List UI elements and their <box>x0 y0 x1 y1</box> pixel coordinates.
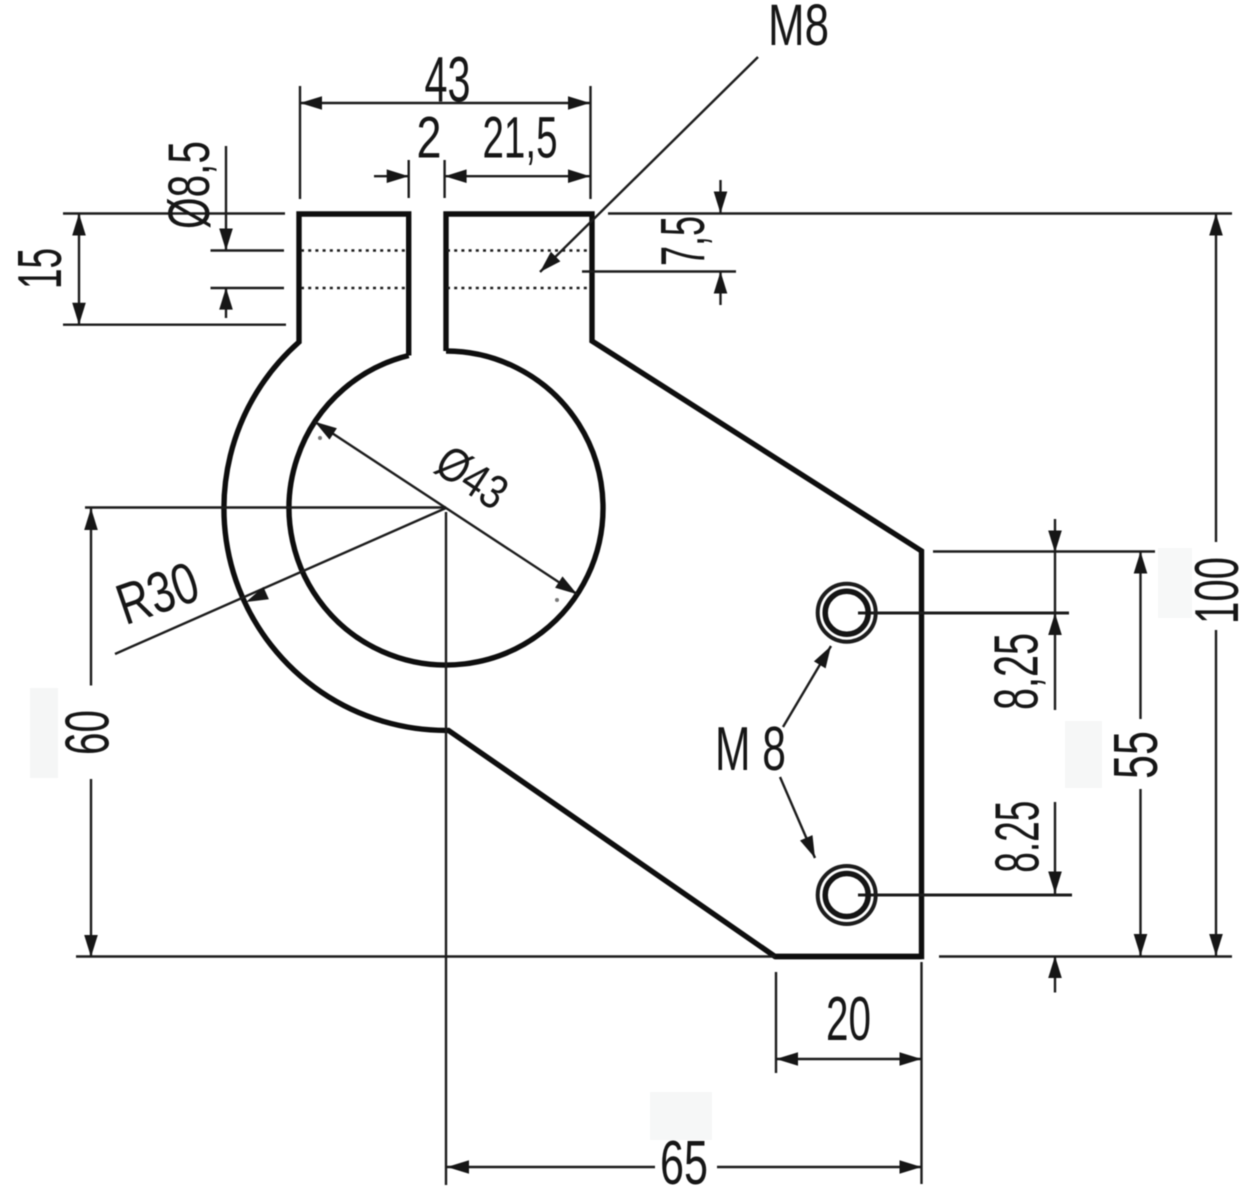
dim 65 <box>447 1166 655 1168</box>
svg-text:Ø8,5: Ø8,5 <box>157 141 222 229</box>
svg-text:20: 20 <box>826 985 871 1054</box>
hole lower M8 <box>818 866 876 924</box>
svg-text:15: 15 <box>6 248 75 289</box>
centerline horizontal <box>85 506 446 508</box>
dim dia 8,5 <box>225 146 227 251</box>
faint scan smudges <box>318 436 322 440</box>
svg-text:21,5: 21,5 <box>483 106 558 171</box>
bore circle <box>289 351 603 665</box>
bottom reference line <box>76 955 775 957</box>
centerline vertical <box>445 512 447 1185</box>
dim dia 43 <box>315 422 577 594</box>
svg-text:7,5: 7,5 <box>649 216 718 266</box>
dim R30 <box>115 508 446 654</box>
dim 2 / 21,5 <box>374 175 409 177</box>
svg-text:8.25: 8.25 <box>984 801 1053 873</box>
thread dotted lines <box>301 249 407 252</box>
dim 20 <box>775 972 777 1073</box>
svg-text:60: 60 <box>53 710 122 755</box>
leader M8 top <box>540 57 758 272</box>
bottom edge thick <box>775 954 922 959</box>
thread line solid extensions left <box>211 249 285 251</box>
dim 43 <box>300 102 590 104</box>
label M 8 with leaders <box>783 646 831 727</box>
svg-text:R30: R30 <box>108 549 207 637</box>
svg-text:55: 55 <box>1102 731 1171 779</box>
dim 8,25 upper <box>1054 519 1056 710</box>
svg-text:8,25: 8,25 <box>983 633 1052 710</box>
hole upper M8 <box>818 584 876 642</box>
svg-text:65: 65 <box>660 1129 708 1198</box>
svg-text:100: 100 <box>1183 557 1252 624</box>
dim 15 <box>63 212 285 214</box>
svg-text:M 8: M 8 <box>715 715 786 784</box>
svg-text:2: 2 <box>417 106 442 171</box>
dim 100 <box>1215 214 1217 543</box>
part outline <box>224 214 922 957</box>
dim 55 <box>933 550 1155 552</box>
dim 7,5 <box>608 212 1232 214</box>
dim 8.25 lower <box>1054 802 1056 894</box>
dim 60 <box>90 508 92 686</box>
svg-text:M8: M8 <box>768 0 829 58</box>
